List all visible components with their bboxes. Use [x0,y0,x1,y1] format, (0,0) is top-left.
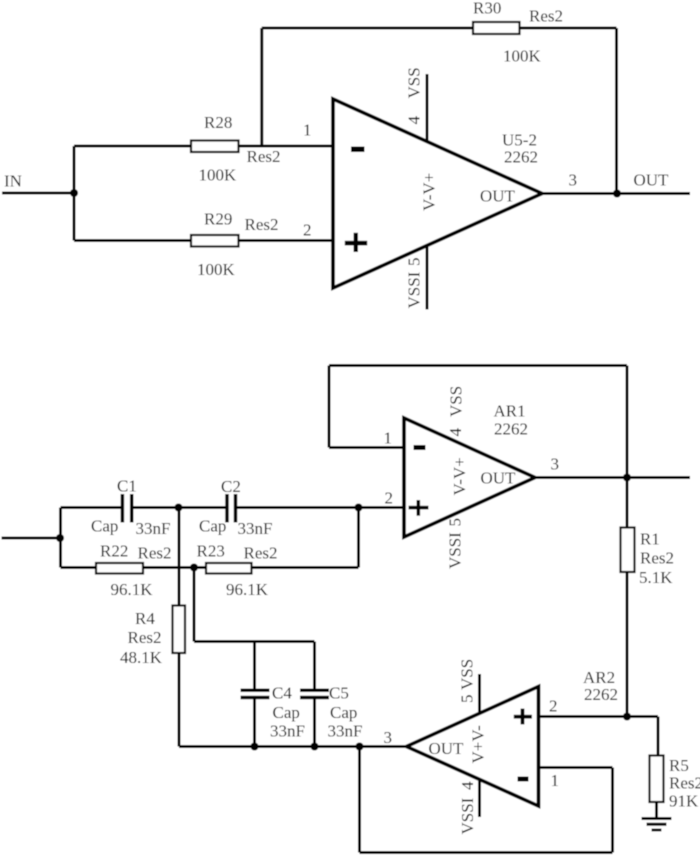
svg-text:5.1K: 5.1K [639,568,673,587]
svg-text:3: 3 [384,728,393,747]
svg-text:Cap: Cap [199,517,226,536]
svg-text:C1: C1 [117,477,137,496]
svg-text:R30: R30 [473,0,501,18]
svg-text:VSS: VSS [447,386,466,417]
svg-text:Res2: Res2 [244,544,278,563]
svg-text:4: 4 [446,428,465,437]
svg-text:R23: R23 [197,542,225,561]
svg-text:3: 3 [551,455,560,474]
svg-text:100K: 100K [197,260,236,279]
svg-text:V-V+: V-V+ [450,457,469,495]
svg-text:AR1: AR1 [494,402,526,421]
svg-text:Res2: Res2 [669,774,700,793]
svg-text:2262: 2262 [584,685,618,704]
svg-text:100K: 100K [199,166,238,185]
svg-text:VSS: VSS [405,67,424,98]
svg-text:VSSI: VSSI [446,532,465,569]
svg-text:Cap: Cap [273,703,300,722]
svg-text:2262: 2262 [494,420,528,439]
svg-text:Res2: Res2 [138,544,172,563]
svg-text:Res2: Res2 [245,215,279,234]
svg-text:5: 5 [405,258,424,267]
svg-text:VSS: VSS [458,659,477,690]
svg-text:100K: 100K [503,47,542,66]
svg-text:1: 1 [384,429,393,448]
svg-text:Res2: Res2 [640,549,674,568]
svg-text:3: 3 [569,171,578,190]
svg-text:R4: R4 [135,609,155,628]
svg-text:VSSI: VSSI [405,271,424,308]
svg-text:4: 4 [458,781,477,790]
svg-text:VSSI: VSSI [458,797,477,834]
svg-text:OUT: OUT [634,171,670,190]
svg-text:2262: 2262 [504,148,538,167]
svg-text:96.1K: 96.1K [226,580,269,599]
svg-text:2: 2 [385,489,394,508]
svg-text:96.1K: 96.1K [111,580,154,599]
svg-text:2: 2 [303,221,312,240]
svg-text:4: 4 [405,116,424,125]
svg-text:91K: 91K [669,792,699,811]
svg-text:R5: R5 [669,756,689,775]
svg-text:Cap: Cap [330,703,357,722]
svg-text:33nF: 33nF [238,519,273,538]
svg-text:Cap: Cap [91,517,118,536]
svg-text:Res2: Res2 [247,147,281,166]
svg-text:C5: C5 [329,684,349,703]
svg-text:OUT: OUT [480,187,516,206]
svg-text:5: 5 [458,695,477,704]
svg-text:R1: R1 [640,530,660,549]
svg-text:R28: R28 [204,113,232,132]
svg-text:48.1K: 48.1K [120,648,163,667]
svg-text:C2: C2 [221,477,241,496]
svg-text:OUT: OUT [429,739,465,758]
svg-text:5: 5 [446,518,465,527]
svg-text:1: 1 [551,771,560,790]
svg-text:Res2: Res2 [128,628,162,647]
svg-text:OUT: OUT [481,469,517,488]
svg-text:33nF: 33nF [136,519,171,538]
svg-text:2: 2 [549,697,558,716]
svg-text:33nF: 33nF [328,722,363,741]
svg-text:IN: IN [4,172,22,191]
svg-text:R22: R22 [100,542,128,561]
svg-text:1: 1 [303,121,312,140]
svg-text:V+V-: V+V- [469,725,488,764]
svg-text:C4: C4 [272,684,292,703]
svg-text:V-V+: V-V+ [420,173,439,211]
svg-text:33nF: 33nF [270,722,305,741]
svg-text:R29: R29 [204,210,232,229]
svg-text:Res2: Res2 [529,7,563,26]
